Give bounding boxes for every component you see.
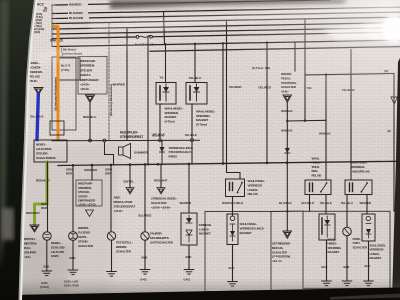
wire YEL/RED long x226 to relay xyxy=(227,20,241,179)
label GRN/RED 2 xyxy=(84,168,97,172)
label cut left text xyxy=(199,223,212,236)
connector triangle ABS xyxy=(126,188,134,195)
ground feststell xyxy=(107,272,117,277)
label VERRIEGELUNGS xyxy=(169,146,194,158)
wire horizontal y121 xyxy=(287,119,326,122)
wire lamp to ground xyxy=(46,240,48,271)
highlighted blue wire BLU/BLK xyxy=(37,95,38,140)
switch GETRIEBEBEREICHS-SCHALTER label xyxy=(272,242,291,264)
solenoid SCHLUESSEL-VERRIEGELUNGS-MAGNET B xyxy=(362,214,375,241)
ground G401 d xyxy=(322,281,332,286)
diode near summer xyxy=(160,141,165,164)
label SCHLUESSEL-VERRIEGELUNGSRELAIS 2 xyxy=(351,161,370,174)
junction dots on bus xyxy=(72,161,289,166)
control unit WEGFAHR-SPERREN 2 xyxy=(76,180,102,206)
label BLK/RED xyxy=(68,10,88,15)
junction dot y74 xyxy=(325,73,327,75)
label GRN/RED 1 xyxy=(66,168,73,176)
pin ticks xyxy=(52,5,56,47)
label ZUENDSCHLUESSEL-SCHALTER xyxy=(151,197,177,210)
wire to ground G401 b xyxy=(188,245,190,270)
wire drop x145 xyxy=(144,164,146,231)
label G301 xyxy=(40,281,49,289)
solenoid WAEHL-HEBEL-SPERREN-MAGNET B xyxy=(319,214,335,240)
lamp NEBEL-SCHLUSS-LEUCHTE xyxy=(43,232,51,240)
connector triangle pedal xyxy=(283,95,292,102)
wire R2 out right xyxy=(366,195,368,215)
wire relay to key solenoid xyxy=(232,197,234,216)
wire bus 7 with fuse xyxy=(56,37,136,39)
wire to ground xyxy=(111,240,113,271)
junction dot x223 top xyxy=(222,42,224,44)
wire bus 6 xyxy=(56,28,400,34)
wire x287 with diode xyxy=(286,121,288,231)
wire right x389 xyxy=(393,74,395,212)
label BLK/GRN xyxy=(68,15,89,20)
enclosure box A xyxy=(205,212,271,292)
wire feed brems-pedal text xyxy=(294,42,296,71)
ground G401 a xyxy=(140,270,150,275)
connector triangle right edge xyxy=(391,97,397,104)
junction dot xyxy=(194,43,196,45)
highlighted orange wire xyxy=(54,27,58,140)
wire YEL feed to solenoid 1 xyxy=(165,44,167,82)
wire to ground B2 xyxy=(346,236,348,281)
ground G201 xyxy=(68,270,78,275)
label WAEHLHEBEL magnet 2 xyxy=(196,110,216,127)
junction dot x305 xyxy=(304,120,306,122)
relay R1 WAEHL-HEBEL-SPERREN-RELAIS xyxy=(305,180,331,195)
solenoid WAEHLHEBEL-SPERREN-MAGNET 2 xyxy=(186,83,207,105)
connector below WEGFAHR2 xyxy=(86,210,94,217)
wire to ground G201 xyxy=(72,240,74,270)
label NEBEL-SCHLUSS-LEUCHTE xyxy=(51,241,65,258)
wire x287 upper xyxy=(286,102,288,121)
switch box seat belt xyxy=(181,213,197,245)
wire RED/BLU vertical xyxy=(89,103,91,141)
switch PARK-STIFT-SCHALTER xyxy=(343,227,352,236)
label WAEHL-HEBEL-SPERREN-MAGNET B xyxy=(328,238,342,255)
ground G401 b xyxy=(184,270,194,275)
junction dot y121 xyxy=(286,120,288,122)
junction dot xyxy=(164,43,166,45)
wire below solenoid 2 xyxy=(191,104,193,139)
wire drop x351 xyxy=(350,50,352,181)
fuse box Nr.5 xyxy=(58,58,80,80)
wire GRN/RED drop x73 xyxy=(72,165,74,231)
wire R1 out right xyxy=(325,195,327,215)
control unit NEBEL-LEUCHTEN-STEUER-SCHALTKREIS xyxy=(34,140,67,162)
wire R1 out left xyxy=(309,195,311,212)
wire drop x305 xyxy=(304,19,306,121)
wire bus 9 xyxy=(150,47,400,52)
label G201 xyxy=(64,280,79,288)
wire to ground B1 xyxy=(326,240,328,281)
diode box on orange wire xyxy=(50,121,64,135)
wire drop x92 xyxy=(91,165,93,180)
wire to fog lamp xyxy=(47,162,49,232)
solenoid WAEHLHEBEL-SPERREN-MAGNET 1 xyxy=(156,83,176,105)
wire solenoid A to ground xyxy=(232,245,234,282)
highlighted green wire RED/WHT xyxy=(35,162,48,225)
label BREMS-FLUESSIGKEITS xyxy=(78,226,94,248)
wire x326 to relay R1 xyxy=(325,75,327,180)
label WH/RED xyxy=(68,2,88,7)
label SCHLUESSEL-VERRIEGELUNGS-RELAIS xyxy=(248,178,266,196)
wire drop x223 xyxy=(222,43,224,163)
switch FESTSTELL-BREMS xyxy=(107,232,115,240)
control unit WEGFAHR-SPERREN receiver xyxy=(78,57,107,95)
wire box-bottom edge with pins xyxy=(52,139,200,142)
pin circle 4 xyxy=(191,139,194,142)
fuse Nr.8 (7.5A) xyxy=(136,35,152,38)
ground G301 d xyxy=(342,281,352,286)
wire to ground B3 xyxy=(368,241,370,281)
wire bus 5 xyxy=(56,23,400,29)
buzzer SUMMER xyxy=(119,144,131,159)
wire drop x161 xyxy=(160,164,162,187)
wire drop x111 feststell xyxy=(110,165,112,232)
wire drop x189 xyxy=(188,164,190,213)
label ABS-MODULATOR xyxy=(114,196,136,214)
wire YEL/BLU feed to solenoid 2 xyxy=(194,44,196,83)
label GRN/ORN xyxy=(105,168,112,176)
relay NEBEL-SCHEIN-WERFER-RELAIS label xyxy=(29,61,43,83)
wire main bus y164 xyxy=(58,161,396,165)
junction dot x267 xyxy=(266,41,268,43)
wire vertical tap x163 xyxy=(164,12,165,45)
left bezel xyxy=(19,0,38,300)
wire drop x130 xyxy=(129,165,131,188)
wire dashed Steuerung-Relaiskasten xyxy=(108,23,110,141)
connector triangle ZUND xyxy=(157,188,165,195)
wire horizontal y211 between boxes xyxy=(271,210,303,212)
connector triangle RED/BLU xyxy=(86,95,95,103)
wire bus BLK/GRN xyxy=(56,12,400,18)
ground G401 e xyxy=(364,281,374,286)
pin circle 3 xyxy=(159,139,162,142)
label WAEHL-HEBEL-SPERREN-RELAIS xyxy=(312,157,322,178)
wire to ground G401 a xyxy=(144,240,146,269)
solenoid SCHLUESSEL-VERRIEGELUNGS-MAGNET A xyxy=(227,214,238,245)
ground G301 xyxy=(42,271,52,276)
relay R2 SCHLUESSEL-VERRIEGELUNGSRELAIS xyxy=(345,180,372,195)
wire step xyxy=(105,142,114,164)
label FAHRER-SICHERHEITS-GURTSCHALTER xyxy=(150,232,174,245)
label SCHLUESSEL-VERRIEGELUNGS-MAGNET B xyxy=(370,244,387,261)
wire R2 out left xyxy=(346,195,348,228)
control unit MULTIPLEX-STEUERGERAET label xyxy=(120,131,143,140)
switch BREMS-PEDAL-POSITIONS-SCHALTER xyxy=(281,72,297,94)
label SCHLUESSEL-VERRIEGELUNGS-MAGNET A xyxy=(240,221,265,235)
wire bus 4 xyxy=(56,17,400,23)
fuse pin labels column xyxy=(30,6,48,34)
wire vertical x127 xyxy=(126,28,128,140)
pin circle 1 xyxy=(89,139,92,142)
pin circle 2 xyxy=(103,139,106,142)
relay SCHLUESSEL-VERRIEGELUNGS-RELAIS xyxy=(226,179,245,197)
wire drop x267 xyxy=(266,43,268,163)
wire vertical x148 xyxy=(147,37,149,164)
label INSTRUMENTEN-BAUGRUPPE xyxy=(24,237,37,259)
switch FAHRER circle xyxy=(141,232,149,240)
wire bus WH/RED xyxy=(56,0,330,5)
connector triangle getriebe xyxy=(283,231,292,238)
wire horizontal y74 xyxy=(305,74,394,75)
connector triangle above blue wire xyxy=(34,88,43,95)
enclosure box B xyxy=(303,211,390,288)
label PARK-STIFT-SCHALTER xyxy=(353,237,368,249)
connector arrow to INSTRUMENTEN xyxy=(30,225,39,232)
junction dot y211 xyxy=(286,210,288,212)
label Mit Nebelschlussleucht xyxy=(61,48,82,57)
label WAEHLHEBEL magnet 1 xyxy=(165,107,184,124)
wire bus BLK/RED xyxy=(56,7,400,13)
wire bus 8 xyxy=(56,40,400,46)
label FESTSTELL-BREMS-SCHALTER xyxy=(116,241,133,254)
switch BREMS-FLUESSIGKEITS-STAND xyxy=(69,232,78,241)
wire below solenoid 1 xyxy=(159,104,161,139)
relay box Sicherungs-Relaiskasten xyxy=(52,57,76,130)
ground G401 c xyxy=(228,282,238,287)
diode on x287 xyxy=(285,148,290,153)
